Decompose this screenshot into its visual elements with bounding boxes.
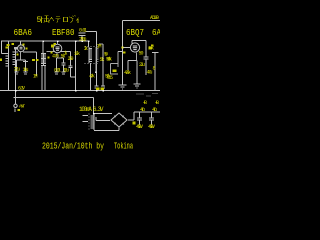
svg-text:1M: 1M <box>97 44 102 50</box>
PT secondary winding <box>91 114 95 130</box>
label pot r <box>113 70 117 73</box>
plate cap to detector lead <box>71 68 76 77</box>
svg-text:500k: 500k <box>106 56 112 62</box>
volume tick <box>99 43 103 45</box>
IFT2 winding 2 <box>96 47 99 63</box>
AVC column <box>95 32 99 91</box>
output T drop <box>154 53 156 91</box>
B+ top bus <box>1 40 89 42</box>
filter cap B <box>149 112 154 125</box>
cathode ground drop <box>136 61 138 85</box>
V3 grid wire <box>123 47 131 49</box>
cathode cap column a <box>14 60 18 74</box>
volume column <box>101 44 105 91</box>
plate cap column <box>69 52 73 68</box>
svg-text:22u: 22u <box>139 62 145 68</box>
cathode cap column b <box>23 60 28 74</box>
svg-text:ANT: ANT <box>19 104 25 110</box>
filter cap A <box>137 112 142 125</box>
svg-text:0.01: 0.01 <box>54 67 61 73</box>
PT top lead to bridge <box>94 113 112 115</box>
svg-text:100mA 6.3V: 100mA 6.3V <box>79 106 104 113</box>
svg-text:470k: 470k <box>124 70 131 76</box>
V1 output wire <box>23 51 36 53</box>
label out t a <box>151 44 154 46</box>
pot wiper bar <box>113 71 117 73</box>
antenna coil primary <box>6 41 9 91</box>
bridge rectifier diamond <box>111 113 127 127</box>
V1 cathode lead <box>20 52 22 60</box>
svg-text:2k: 2k <box>84 46 88 52</box>
heater drop to PT <box>93 98 95 114</box>
svg-text:10u: 10u <box>63 67 69 73</box>
cathode resistor drop <box>127 61 129 71</box>
svg-text:1M: 1M <box>33 74 38 80</box>
label bridge out <box>133 122 136 125</box>
heater bus <box>14 97 94 99</box>
label coil left edge <box>0 59 2 62</box>
coil top junction <box>14 47 17 50</box>
svg-text:AC100: AC100 <box>150 15 159 21</box>
svg-text:22u: 22u <box>14 66 20 72</box>
svg-text:8: 8 <box>153 65 156 71</box>
svg-text:450V: 450V <box>148 124 155 130</box>
label ift1 g <box>50 51 52 53</box>
svg-text:250: 250 <box>68 56 74 62</box>
svg-text:5: 5 <box>37 16 42 25</box>
svg-text:50: 50 <box>139 51 144 57</box>
label out t b <box>149 47 152 49</box>
AVC wire <box>86 31 97 33</box>
IFT2 winding 1 <box>89 47 92 63</box>
ground symbol G3 <box>134 84 141 88</box>
svg-text:+B: +B <box>143 100 147 106</box>
PT bottom lead to bridge <box>94 128 119 131</box>
label coil top <box>6 47 9 49</box>
ground symbol G1 <box>119 85 127 89</box>
svg-text:EBF80: EBF80 <box>52 28 75 38</box>
antenna down wire <box>1 41 3 54</box>
V2 plate wire <box>61 51 71 53</box>
svg-text:470: 470 <box>52 53 59 59</box>
svg-text:10u: 10u <box>23 67 29 73</box>
antenna terminal <box>14 104 17 107</box>
V3 cathode lead <box>136 52 138 60</box>
PT mid lead to bridge <box>96 117 110 121</box>
antenna coil input wire <box>2 53 9 55</box>
label V1 g2 dot <box>25 47 27 49</box>
svg-text:5k: 5k <box>100 57 105 63</box>
label V1 k dot <box>16 53 18 55</box>
earth terminal stub <box>14 109 16 113</box>
junction dots <box>15 40 104 114</box>
V2 cathode jog <box>57 53 64 58</box>
detector long lead <box>75 41 77 91</box>
svg-text:6.3V: 6.3V <box>18 85 25 91</box>
label earth <box>18 109 21 111</box>
svg-text:0.01: 0.01 <box>79 27 87 33</box>
plate cap <box>144 57 149 75</box>
cathode wire <box>128 60 137 62</box>
grid junction dot <box>122 47 124 49</box>
mid volume pot box <box>111 52 118 75</box>
title kanji 球 <box>41 16 50 23</box>
V3 plate loop <box>132 41 146 57</box>
tube V1 6BA6 <box>18 45 25 52</box>
IFT1 winding <box>41 53 46 66</box>
IFT2 bottom lead <box>90 63 92 91</box>
V1 cathode rail <box>17 59 26 61</box>
AC input wire <box>123 20 161 22</box>
ground bus <box>0 90 160 92</box>
IFT1 to V2 grid wire <box>47 51 55 53</box>
label ift1 mid dot <box>47 56 49 58</box>
IFT1 bottom lead a <box>41 66 43 91</box>
label ift1 top <box>51 45 54 48</box>
V2 cathode cap column <box>54 58 58 74</box>
label bus dashes mid <box>96 88 99 90</box>
IFT1 bottom lead b <box>44 66 46 91</box>
V2 top lead <box>57 41 59 44</box>
label dots near bus left <box>7 44 10 46</box>
svg-text:47k: 47k <box>89 73 95 79</box>
PT primary stub b <box>83 121 89 123</box>
label v2 top dot <box>54 43 56 45</box>
svg-text:+B: +B <box>155 100 159 106</box>
svg-text:6AR5: 6AR5 <box>152 28 160 38</box>
svg-text:47u: 47u <box>152 107 157 113</box>
svg-text:0.5: 0.5 <box>107 75 113 81</box>
PT primary stub a <box>83 115 89 117</box>
V1 output drop <box>36 52 38 76</box>
B+ bus3 <box>134 111 160 113</box>
svg-text:Tokina: Tokina <box>114 142 133 152</box>
output T bar <box>152 52 159 54</box>
antenna coil secondary <box>13 47 16 104</box>
V1 grid stub <box>16 51 18 53</box>
svg-text:47u: 47u <box>140 107 145 113</box>
PT core dash <box>88 114 90 131</box>
title katakana ヘテロダイン <box>49 15 79 23</box>
svg-text:10k: 10k <box>74 51 80 57</box>
pot top wire to AC drop <box>118 51 123 53</box>
label V1 plate dot <box>22 43 24 45</box>
screen cap column <box>61 58 65 74</box>
V1 plate lead <box>20 41 22 45</box>
svg-text:2015/Jan/10th by: 2015/Jan/10th by <box>42 142 104 152</box>
IFT2 core dash <box>85 47 99 64</box>
label avc pair <box>32 59 35 61</box>
svg-text:6BQ7: 6BQ7 <box>126 28 144 38</box>
coupling cap C <box>79 33 86 41</box>
svg-text:450V: 450V <box>136 124 143 130</box>
IFT2 entry corner <box>88 41 90 47</box>
bridge output <box>128 112 134 120</box>
IFT1 top lead <box>42 41 44 53</box>
faint marks right bus <box>136 94 158 97</box>
IFT2 winding2 stub <box>95 63 97 72</box>
junction dot 2 <box>123 51 126 53</box>
AC drop <box>122 21 124 86</box>
tube V2 EBF80 <box>53 44 62 53</box>
tube V3 6BQ7 <box>130 43 139 52</box>
svg-text:6BA6: 6BA6 <box>14 28 33 38</box>
